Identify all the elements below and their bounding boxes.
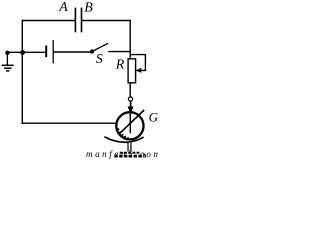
ground symbol [2,53,14,71]
electroscope ball terminal [128,97,132,101]
rheostat slider wire [130,55,145,71]
svg-text:S: S [96,52,103,67]
wire: battery to switch [53,51,90,53]
electroscope stopper wedge [128,106,134,111]
svg-text:A: A [58,0,68,15]
electroscope case circle G [116,112,143,139]
svg-text:B: B [84,0,93,15]
svg-text:R: R [115,58,125,73]
wire: top horizontal left segment [22,20,76,22]
svg-text:manfen5.com: manfen5.com [86,149,158,159]
rheostat R body [128,59,136,83]
electroscope stand column [127,143,129,152]
svg-text:G: G [149,110,158,125]
rheostat slider arrowhead [136,68,142,73]
switch S pivot dot [90,49,94,53]
battery positive plate (long) [52,40,54,63]
electroscope cradle arc [104,137,143,142]
junction dot at left vertical [20,50,25,55]
wire: switch to right vertical [108,51,131,53]
switch S blade [92,43,108,51]
capacitor plate B [81,8,83,33]
wire: right vertical top (corner to rheostat) [129,20,131,59]
wire: middle, ground dot to battery [7,51,46,53]
battery negative plate (short) [45,46,47,58]
capacitor plate A [74,8,76,33]
wire: bottom horizontal [22,122,117,124]
electroscope hatched base [114,153,145,158]
wire: left vertical [21,20,23,124]
wire: top horizontal right segment [81,20,130,22]
electroscope scale ticks [116,129,128,139]
wire: right vertical below rheostat [129,83,131,97]
electroscope pointer leaf [119,110,145,134]
electroscope stem [130,101,132,107]
ground terminal dot [5,51,9,55]
electroscope inner rod [129,114,131,134]
